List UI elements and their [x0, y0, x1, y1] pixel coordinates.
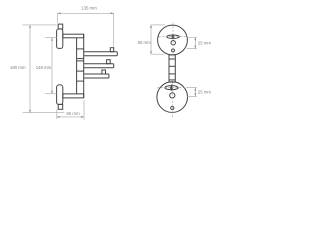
bottom lens: [165, 86, 178, 90]
right figure: front view: [157, 25, 188, 112]
arm 3: [102, 70, 106, 74]
svg-text:25 mm: 25 mm: [198, 40, 212, 45]
arm 2: [107, 60, 111, 64]
148 mm dim: [51, 38, 53, 94]
55 mm dim: [150, 25, 152, 54]
top sphere: [158, 25, 188, 55]
svg-text:25 mm: 25 mm: [198, 89, 212, 94]
135 mm dim: [58, 12, 114, 14]
arrowheads: [29, 13, 196, 118]
stem: [169, 55, 175, 82]
svg-text:190 mm: 190 mm: [10, 65, 26, 70]
190 mm dim: [29, 25, 31, 113]
25 mm top dim: [187, 36, 197, 38]
bottom plate: [57, 85, 63, 105]
dashed centerlines: [158, 23, 188, 118]
top plate: [57, 29, 63, 49]
column: [83, 34, 85, 98]
top lens: [167, 35, 180, 39]
bottom tiny circle: [171, 106, 174, 109]
collar lines: [77, 48, 84, 50]
top tiny circle: [172, 49, 175, 52]
bottom sphere: [157, 82, 188, 113]
svg-text:148 mm: 148 mm: [36, 65, 52, 70]
top stub: [63, 34, 84, 38]
svg-text:135 mm: 135 mm: [81, 5, 97, 10]
bottom knob: [58, 104, 63, 109]
arm 1: [110, 48, 113, 52]
top knob: [58, 24, 63, 29]
25 mm bottom dim: [187, 87, 197, 89]
bottom small circle: [170, 93, 175, 98]
dimension lines: [23, 13, 197, 119]
svg-text:65 mm: 65 mm: [66, 111, 80, 116]
top small circle: [171, 41, 175, 45]
65 mm dim: [57, 116, 84, 118]
svg-text:55 mm: 55 mm: [138, 40, 152, 45]
bottom stub: [63, 94, 84, 98]
